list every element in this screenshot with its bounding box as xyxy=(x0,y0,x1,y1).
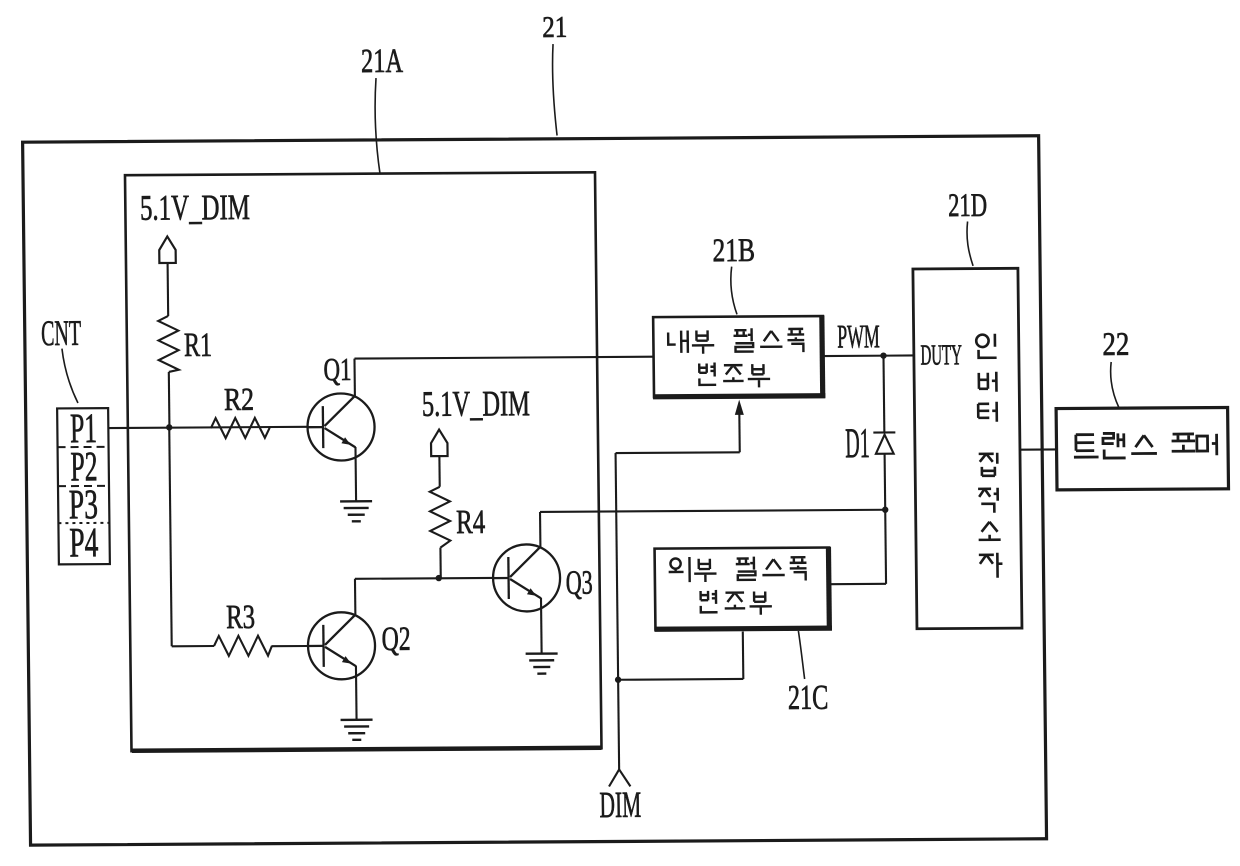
svg-text:CNT: CNT xyxy=(41,313,81,353)
svg-text:D1: D1 xyxy=(845,420,870,467)
svg-text:DIM: DIM xyxy=(599,785,641,826)
svg-text:21: 21 xyxy=(542,11,567,44)
svg-text:Q2: Q2 xyxy=(381,621,410,658)
svg-text:R2: R2 xyxy=(224,381,254,417)
svg-text:R4: R4 xyxy=(456,504,485,541)
svg-text:R1: R1 xyxy=(184,327,212,364)
svg-text:DUTY: DUTY xyxy=(920,339,962,371)
svg-text:21B: 21B xyxy=(712,233,755,269)
svg-text:22: 22 xyxy=(1102,327,1129,363)
svg-text:21A: 21A xyxy=(361,43,404,80)
svg-text:5.1V_DIM: 5.1V_DIM xyxy=(140,187,250,228)
svg-text:Q1: Q1 xyxy=(323,351,351,387)
svg-text:PWM: PWM xyxy=(837,319,880,355)
svg-text:21C: 21C xyxy=(788,678,829,717)
svg-text:P4: P4 xyxy=(69,520,99,566)
svg-text:Q3: Q3 xyxy=(566,565,593,602)
svg-text:21D: 21D xyxy=(948,188,987,224)
svg-text:R3: R3 xyxy=(226,599,255,636)
svg-text:5.1V_DIM: 5.1V_DIM xyxy=(422,383,530,424)
